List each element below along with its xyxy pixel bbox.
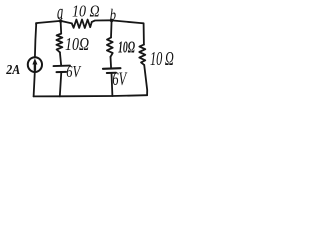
wire: resistor R2 to battery B2 <box>110 57 113 69</box>
svg-text:10 Ω: 10 Ω <box>72 2 100 20</box>
wire: bottom-left corner up to current source <box>34 72 35 96</box>
current source value label 2A <box>5 61 20 77</box>
current source I1 (circle) <box>28 57 42 72</box>
wire: battery B2 to bottom rail <box>111 73 114 96</box>
wire: top-left corner to node a <box>36 21 61 25</box>
wire: bottom rail <box>34 95 148 96</box>
R1 value label 10 Ohm <box>65 34 89 54</box>
svg-text:10Ω: 10Ω <box>65 34 89 54</box>
battery B1 short plate <box>57 71 67 73</box>
current source arrow (pointing up) <box>34 63 36 71</box>
R3 value label 10 Ohm <box>150 47 174 70</box>
B1 value label 6V <box>66 63 82 81</box>
battery B2 short plate <box>107 72 116 74</box>
node b (junction dot) <box>110 19 114 23</box>
resistor R3 10 ohm (right vertical zigzag) <box>139 45 145 65</box>
node a (junction dot) <box>59 19 63 23</box>
svg-text:6V: 6V <box>112 70 127 90</box>
wire: resistor R_ab to node b <box>92 20 112 22</box>
node b label <box>110 6 116 24</box>
wire: node b down to resistor R2 <box>110 20 113 37</box>
svg-text:10 Ω: 10 Ω <box>150 47 174 70</box>
wire: current source top to top-left corner <box>35 25 36 58</box>
R2 value label 10 Ohm <box>118 38 136 56</box>
wire: node b to top-right corner, down to resistor R3 <box>112 20 144 44</box>
wire: resistor R3 to bottom-right corner <box>144 65 147 95</box>
node a label <box>57 0 63 24</box>
R_ab value label 10 Ohm <box>72 2 100 20</box>
B2 value label 6V <box>112 70 127 90</box>
resistor R2 10 ohm (branch 2 vertical zigzag) <box>107 38 113 57</box>
resistor R1 10 ohm (branch 1 vertical zigzag) <box>56 34 62 53</box>
wire: resistor R1 to battery B1 <box>60 52 61 65</box>
battery B1 long plate <box>54 65 71 68</box>
resistor R_ab 10 ohm (top horizontal zigzag) <box>72 20 92 29</box>
svg-text:10Ω: 10Ω <box>118 38 136 56</box>
battery B2 long plate <box>103 67 120 70</box>
svg-text:2A: 2A <box>5 61 20 77</box>
wire: node a down to resistor R1 <box>60 21 63 34</box>
wire: node a to resistor R_ab <box>61 21 72 24</box>
svg-text:6V: 6V <box>66 63 82 81</box>
wire: battery B1 to bottom rail <box>60 72 62 96</box>
